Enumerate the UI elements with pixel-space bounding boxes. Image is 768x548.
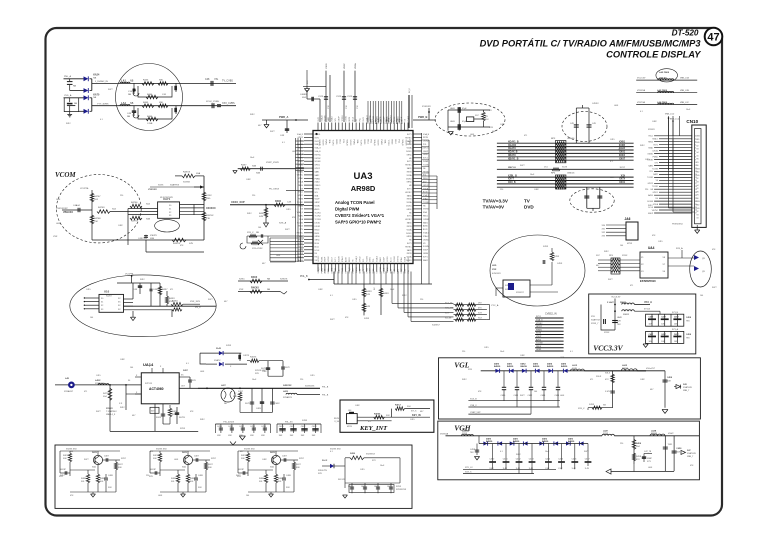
svg-text:X4XX: X4XX	[226, 345, 232, 347]
svg-text:VGA_B: VGA_B	[315, 150, 322, 153]
svg-text:D4X4: D4X4	[547, 363, 553, 366]
svg-text:SAR2: SAR2	[379, 257, 382, 262]
svg-text:XXXX: XXXX	[180, 428, 186, 430]
svg-text:POL: POL	[359, 118, 361, 122]
svg-text:RED1: RED1	[423, 216, 428, 218]
svg-text:GRN1: GRN1	[407, 209, 412, 211]
svg-text:C4X6: C4X6	[572, 459, 577, 461]
svg-text:C4X0: C4X0	[279, 426, 284, 428]
svg-text:PWM1: PWM1	[408, 140, 410, 145]
svg-text:LA5X: LA5X	[450, 107, 456, 110]
svg-text:XJBL_B: XJBL_B	[508, 175, 517, 177]
svg-text:GPIO2: GPIO2	[648, 183, 654, 185]
svg-text:XXXP_XXXX: XXXP_XXXX	[266, 162, 279, 164]
svg-text:RSTB: RSTB	[407, 253, 413, 255]
svg-text:GNDP: GNDP	[315, 202, 321, 204]
svg-text:XXX7: XXX7	[211, 458, 216, 460]
svg-text:GPIO1: GPIO1	[653, 192, 659, 194]
svg-text:XXX7: XXX7	[299, 458, 304, 460]
svg-text:X0: X0	[101, 298, 103, 300]
svg-text:XXAT7XX: XXAT7XX	[591, 319, 601, 322]
svg-text:104: 104	[492, 131, 495, 133]
svg-text:LED: LED	[492, 265, 497, 267]
svg-text:X1: X1	[101, 302, 103, 304]
svg-text:C4X1: C4X1	[361, 486, 366, 488]
svg-text:R412: R412	[516, 454, 521, 456]
svg-text:LVDS1: LVDS1	[423, 239, 429, 241]
svg-text:0.1: 0.1	[100, 119, 103, 121]
svg-text:DVD PORTÁTIL C/ TV/RADIO AM/F: DVD PORTÁTIL C/ TV/RADIO AM/FM/USB/MC/MP…	[480, 39, 702, 49]
svg-text:C482: C482	[652, 121, 657, 123]
svg-text:0.1: 0.1	[610, 161, 613, 163]
svg-text:X4XX: X4XX	[92, 451, 98, 454]
svg-text:BLU0: BLU0	[352, 117, 354, 122]
svg-text:X08: X08	[63, 458, 66, 460]
svg-text:FB08X: FB08X	[651, 433, 658, 435]
svg-text:LA2X: LA2X	[622, 364, 628, 367]
svg-text:DXLX: DXLX	[596, 376, 602, 378]
svg-text:D4X0: D4X0	[494, 363, 500, 366]
svg-text:C4X1: C4X1	[290, 426, 295, 428]
svg-text:AVDD: AVDD	[648, 194, 654, 197]
svg-text:R477: R477	[96, 411, 101, 413]
svg-text:JX4: JX4	[348, 410, 351, 412]
svg-text:C4X0: C4X0	[217, 426, 222, 428]
svg-text:SOGIN: SOGIN	[339, 256, 341, 262]
svg-text:BAV99: BAV99	[494, 365, 501, 368]
svg-text:VXXXXX: VXXXXX	[148, 189, 157, 191]
svg-text:POL: POL	[423, 144, 427, 146]
svg-text:HSYNC: HSYNC	[318, 255, 320, 262]
svg-text:XXLX: XXLX	[605, 373, 611, 375]
svg-text:XxXO: XxXO	[106, 296, 112, 298]
svg-text:X3.8V: X3.8V	[334, 418, 340, 420]
svg-text:L403: L403	[614, 105, 618, 107]
svg-text:VCCPNL: VCCPNL	[125, 274, 135, 276]
svg-text:X.4X: X.4X	[585, 468, 590, 470]
svg-text:PXL_B: PXL_B	[322, 387, 329, 389]
svg-text:PWM1: PWM1	[315, 178, 320, 180]
svg-text:C4X1: C4X1	[514, 395, 519, 397]
svg-text:CVBS: CVBS	[695, 136, 699, 138]
svg-text:L403: L403	[560, 395, 564, 397]
svg-text:D4X1: D4X1	[513, 438, 519, 441]
svg-text:BLU0: BLU0	[315, 243, 320, 245]
svg-text:X1: X1	[169, 208, 171, 210]
svg-text:X8G: X8G	[206, 198, 211, 200]
svg-text:HSYNC: HSYNC	[405, 219, 412, 221]
svg-text:PWM1: PWM1	[536, 329, 542, 331]
svg-text:471: 471	[590, 379, 593, 381]
svg-text:VGA_R: VGA_R	[373, 140, 376, 147]
svg-text:SVC1: SVC1	[648, 136, 653, 138]
svg-text:X0B: X0B	[252, 166, 257, 168]
svg-text:BLU0: BLU0	[423, 192, 428, 194]
svg-text:C4X8: C4X8	[470, 449, 476, 451]
svg-text:XX_X: XX_X	[409, 88, 411, 93]
svg-text:VDDP: VDDP	[344, 63, 346, 69]
svg-text:C-NB: C-NB	[147, 123, 153, 125]
svg-text:KEY_INT: KEY_INT	[359, 425, 388, 432]
svg-text:C4X7: C4X7	[661, 333, 666, 336]
svg-text:RSTB: RSTB	[407, 199, 413, 201]
svg-text:XXATX4X: XXATX4X	[687, 452, 697, 455]
svg-text:4K7: 4K7	[420, 411, 423, 413]
svg-text:C4X4: C4X4	[545, 459, 550, 461]
svg-text:RSTB: RSTB	[315, 189, 321, 191]
svg-text:GPIO1: GPIO1	[423, 147, 429, 149]
svg-text:TCON3: TCON3	[423, 202, 429, 204]
svg-text:VXX: VXX	[53, 236, 58, 238]
svg-text:UA3: UA3	[353, 171, 372, 182]
svg-text:XTALO: XTALO	[315, 184, 321, 187]
svg-text:D4X2: D4X2	[521, 363, 527, 366]
svg-text:C4X8: C4X8	[686, 333, 692, 336]
svg-text:NB: NB	[93, 97, 97, 99]
svg-text:VDDP: VDDP	[536, 336, 542, 338]
svg-text:3Y3_A: 3Y3_A	[644, 300, 652, 304]
svg-text:SYSXXX: SYSXXX	[422, 106, 431, 108]
svg-text:XCK_B: XCK_B	[470, 399, 477, 401]
svg-text:BLU1: BLU1	[391, 258, 393, 263]
svg-text:SVC1: SVC1	[423, 158, 428, 160]
svg-text:SAR1: SAR1	[407, 167, 412, 170]
svg-text:X4X: X4X	[259, 216, 264, 218]
svg-text:C4X7: C4X7	[649, 316, 654, 319]
svg-text:L4XX: L4XX	[95, 379, 101, 382]
svg-text:R412: R412	[60, 475, 65, 477]
svg-text:CVBS1: CVBS1	[315, 134, 321, 136]
svg-text:XTALI: XTALI	[298, 177, 303, 180]
svg-text:RED1: RED1	[404, 269, 406, 274]
svg-text:VSYNC: VSYNC	[536, 323, 543, 325]
svg-text:RED1: RED1	[349, 117, 351, 122]
svg-text:RED0: RED0	[335, 140, 337, 145]
svg-text:DCLK: DCLK	[315, 250, 321, 252]
svg-text:GNDP: GNDP	[401, 268, 403, 274]
svg-text:VCC3.3V: VCC3.3V	[593, 344, 623, 353]
svg-text:C4X3: C4X3	[250, 426, 255, 428]
svg-text:X1X: X1X	[478, 318, 482, 320]
svg-text:R4768: R4768	[94, 218, 101, 220]
svg-text:RED1: RED1	[349, 257, 351, 262]
svg-text:XTALO: XTALO	[423, 235, 429, 238]
svg-text:PWM1: PWM1	[321, 268, 323, 273]
svg-text:C4X7X: C4X7X	[243, 355, 250, 357]
svg-text:J_SVBS2_IN: J_SVBS2_IN	[95, 81, 108, 83]
svg-text:X08: X08	[241, 458, 244, 460]
svg-text:0.1: 0.1	[640, 111, 643, 113]
svg-text:XTALO: XTALO	[652, 138, 658, 141]
svg-text:XXXX: XXXX	[619, 155, 626, 157]
svg-text:LA5X: LA5X	[450, 120, 456, 123]
svg-text:220: 220	[462, 351, 465, 353]
svg-text:TV/AV=3.3V: TV/AV=3.3V	[483, 199, 509, 204]
svg-text:CX2X: CX2X	[318, 96, 324, 98]
svg-text:X4: X4	[128, 380, 130, 382]
svg-text:X47X: X47X	[245, 403, 250, 405]
svg-text:PWM1: PWM1	[325, 140, 327, 145]
svg-text:VGA_G: VGA_G	[536, 319, 543, 322]
svg-text:VDDA: VDDA	[407, 228, 413, 231]
svg-text:NB: NB	[130, 102, 134, 105]
svg-text:R4XX: R4XX	[383, 293, 389, 295]
svg-text:CVBS1: CVBS1	[423, 219, 429, 221]
svg-text:R4X8: R4X8	[81, 478, 86, 480]
svg-text:R4XX: R4XX	[366, 291, 372, 293]
svg-text:R412: R412	[66, 123, 71, 125]
svg-text:RSTB: RSTB	[407, 172, 413, 174]
svg-text:75K: 75K	[94, 221, 98, 223]
svg-text:CXB_X: CXB_X	[470, 405, 477, 407]
svg-text:SVC1: SVC1	[394, 269, 396, 274]
svg-text:VDDA: VDDA	[407, 201, 413, 204]
svg-text:SVY1: SVY1	[407, 243, 412, 245]
svg-text:RED0: RED0	[423, 178, 428, 180]
svg-text:XX_X8: XX_X8	[445, 318, 452, 320]
svg-text:VGA_B: VGA_B	[376, 255, 379, 262]
svg-text:VGA_R: VGA_R	[355, 255, 358, 262]
svg-text:C482: C482	[262, 371, 267, 373]
svg-text:220: 220	[500, 189, 503, 191]
svg-text:471: 471	[630, 285, 633, 287]
svg-text:PU_XXXX: PU_XXXX	[269, 189, 280, 191]
svg-text:220: 220	[120, 195, 123, 197]
svg-text:R412: R412	[120, 407, 125, 409]
svg-text:XXB1: XXB1	[619, 141, 626, 143]
svg-text:R4769: R4769	[98, 207, 105, 209]
svg-text:BAV99: BAV99	[547, 365, 554, 368]
svg-text:LVDS2: LVDS2	[652, 150, 658, 152]
svg-text:R477: R477	[270, 131, 275, 133]
svg-text:4K7: 4K7	[224, 301, 227, 303]
svg-text:TV: TV	[524, 199, 531, 204]
svg-text:104: 104	[130, 367, 133, 369]
svg-text:C4089: C4089	[300, 94, 307, 96]
svg-text:TV/AV=0V: TV/AV=0V	[483, 205, 505, 210]
svg-text:VXXXXA: VXXXXA	[637, 89, 646, 92]
svg-text:VSYNC: VSYNC	[652, 210, 659, 212]
svg-text:XXXXXX: XXXXXX	[206, 207, 216, 210]
svg-text:C4X1: C4X1	[503, 459, 508, 461]
svg-text:TCON2: TCON2	[387, 267, 389, 273]
svg-text:BAV99: BAV99	[568, 440, 575, 443]
svg-text:SAR2: SAR2	[423, 259, 428, 262]
svg-text:R477: R477	[520, 165, 525, 167]
svg-text:R4X8: R4X8	[171, 478, 176, 480]
svg-text:220: 220	[620, 443, 623, 445]
svg-text:X01: X01	[81, 481, 84, 483]
svg-text:GPIO2: GPIO2	[315, 168, 321, 170]
svg-text:VGA_B: VGA_B	[423, 133, 430, 136]
svg-text:C4X2: C4X2	[528, 395, 533, 397]
svg-text:4.8V/XXX: 4.8V/XXX	[492, 273, 501, 275]
svg-text:R477: R477	[285, 229, 290, 231]
svg-text:X01: X01	[259, 481, 262, 483]
svg-text:104: 104	[90, 317, 93, 319]
svg-text:XX17: XX17	[620, 167, 626, 169]
svg-text:SAR1: SAR1	[407, 194, 412, 197]
svg-text:0.1: 0.1	[330, 295, 333, 297]
svg-text:TCON3: TCON3	[536, 343, 542, 345]
svg-text:XBB4.4_X: XBB4.4_X	[106, 414, 116, 416]
svg-text:PWM1: PWM1	[380, 140, 382, 145]
svg-text:471: 471	[170, 289, 173, 291]
svg-text:X0B: X0B	[150, 238, 155, 240]
svg-text:XTALO: XTALO	[383, 267, 386, 273]
svg-text:XXXAXX7: XXXAXX7	[64, 390, 74, 393]
svg-text:XRAYX: XRAYX	[508, 154, 516, 157]
svg-text:PWM1: PWM1	[653, 156, 658, 158]
svg-text:AVDD: AVDD	[315, 208, 321, 211]
svg-text:VGA_G: VGA_G	[317, 267, 320, 274]
svg-text:C415: C415	[658, 241, 663, 243]
svg-text:C4X4: C4X4	[261, 426, 266, 428]
svg-text:NB: NB	[128, 94, 132, 96]
svg-text:SOGIN: SOGIN	[377, 140, 379, 146]
svg-text:C4X7: C4X7	[194, 456, 199, 458]
svg-text:VGA_R: VGA_R	[401, 140, 404, 147]
svg-text:C4X7: C4X7	[674, 316, 679, 319]
svg-text:R4767: R4767	[94, 196, 101, 198]
svg-text:X.4X: X.4X	[572, 468, 577, 470]
svg-text:C4X7X: C4X7X	[138, 238, 145, 240]
svg-text:SVY1: SVY1	[407, 134, 412, 136]
svg-text:0.1: 0.1	[330, 451, 333, 453]
svg-text:FB08X: FB08X	[623, 314, 630, 316]
svg-text:C415: C415	[610, 139, 615, 141]
svg-text:LA4 FB09: LA4 FB09	[657, 101, 668, 104]
svg-text:VDDA: VDDA	[653, 203, 659, 206]
svg-text:GRN1: GRN1	[536, 349, 541, 351]
svg-text:XXLB.7XV: XXLB.7XV	[318, 470, 328, 472]
svg-text:DVD: DVD	[524, 205, 534, 210]
svg-text:R444: R444	[147, 94, 153, 96]
svg-text:XXXXX: XXXXX	[106, 408, 113, 410]
svg-text:XXX+XXXX: XXX+XXXX	[252, 248, 263, 250]
svg-text:XXA7X: XXA7X	[214, 359, 221, 362]
svg-text:4PXX: 4PXX	[627, 243, 633, 245]
svg-text:RSTB: RSTB	[536, 333, 542, 335]
svg-text:HS: HS	[696, 191, 698, 193]
svg-text:VXXTXA: VXXTXA	[637, 101, 646, 104]
svg-text:SVY1: SVY1	[363, 117, 365, 122]
svg-text:TCON2: TCON2	[647, 177, 653, 179]
svg-text:VBB_LXB: VBB_LXB	[680, 90, 690, 92]
svg-text:GNDP: GNDP	[423, 151, 429, 153]
svg-text:CVBS2_IN: CVBS2_IN	[545, 313, 557, 316]
svg-text:PXXXXXX4: PXXXXXX4	[672, 224, 683, 226]
svg-text:VCC3.3V: VCC3.3V	[611, 297, 621, 299]
svg-text:VGA_R: VGA_R	[318, 140, 321, 147]
svg-text:X4X7: X4X7	[208, 464, 213, 466]
svg-text:RSTB: RSTB	[298, 199, 304, 201]
svg-text:SVY1: SVY1	[407, 189, 412, 191]
svg-text:C482: C482	[246, 179, 251, 181]
svg-text:BNN_LCD: BNN_LCD	[670, 119, 680, 121]
svg-text:VSYNC: VSYNC	[315, 158, 322, 160]
svg-text:L403: L403	[560, 357, 564, 359]
svg-text:4K7: 4K7	[258, 125, 261, 127]
svg-text:X1K: X1K	[206, 218, 211, 220]
svg-text:C4X2: C4X2	[374, 486, 379, 488]
svg-text:X08: X08	[118, 467, 121, 469]
svg-text:471: 471	[524, 135, 527, 137]
svg-text:X08: X08	[296, 467, 299, 469]
svg-text:R477: R477	[330, 319, 335, 321]
svg-text:BLU0: BLU0	[402, 120, 404, 125]
svg-text:R4X,X: R4X,X	[395, 404, 401, 407]
svg-text:Digital PWM: Digital PWM	[335, 207, 360, 212]
svg-text:RED0: RED0	[315, 229, 320, 231]
svg-text:R3: R3	[696, 182, 698, 184]
svg-text:XXX1: XXX1	[619, 152, 626, 154]
svg-text:SOGIN: SOGIN	[647, 201, 653, 203]
svg-text:XXXXXXX: XXXXXXX	[366, 454, 376, 456]
svg-text:GND16: GND16	[567, 173, 575, 175]
svg-text:3Y3_B: 3Y3_B	[672, 312, 679, 314]
svg-text:LXXX: LXXX	[206, 195, 212, 197]
svg-text:U10: U10	[104, 290, 110, 294]
svg-text:SCL: SCL	[315, 192, 319, 194]
svg-text:C4X3: C4X3	[541, 395, 546, 397]
svg-text:X4X7: X4X7	[118, 464, 123, 466]
svg-text:R477: R477	[584, 451, 589, 453]
svg-text:C4X7: C4X7	[104, 456, 109, 458]
svg-text:HSYNC: HSYNC	[315, 154, 322, 156]
svg-text:C482: C482	[500, 124, 505, 126]
svg-text:FB08X: FB08X	[622, 368, 629, 370]
svg-text:VSYNC: VSYNC	[397, 255, 399, 262]
svg-text:BLU1: BLU1	[315, 246, 320, 248]
svg-text:X47X: X47X	[285, 367, 290, 369]
svg-text:X08: X08	[208, 467, 211, 469]
svg-text:XXXXX: XXXXX	[648, 129, 655, 131]
svg-text:SVY1: SVY1	[407, 161, 412, 163]
svg-text:R477: R477	[236, 475, 241, 477]
svg-text:4K7: 4K7	[618, 149, 621, 151]
svg-text:C48: C48	[205, 78, 210, 81]
svg-text:BAV99: BAV99	[521, 365, 528, 368]
svg-text:CX2X: CX2X	[347, 96, 353, 98]
svg-text:CXBP_XNT: CXBP_XNT	[470, 412, 481, 414]
svg-text:VS: VS	[696, 162, 698, 164]
svg-text:Y8L: Y8L	[214, 78, 219, 81]
svg-text:R3: R3	[696, 149, 698, 151]
svg-text:XL4X: XL4X	[216, 347, 222, 350]
svg-text:C4X2: C4X2	[516, 459, 521, 461]
svg-text:R4X6: R4X6	[275, 200, 282, 203]
svg-text:XGAXX: XGAXX	[508, 144, 517, 147]
svg-text:VDDA: VDDA	[407, 174, 413, 177]
svg-text:C4X8: C4X8	[108, 475, 113, 477]
svg-text:PNL_A: PNL_A	[64, 75, 71, 78]
svg-text:C4X: C4X	[592, 123, 597, 125]
svg-text:RED1: RED1	[315, 233, 320, 235]
svg-text:R412: R412	[402, 295, 407, 297]
svg-text:AVDD: AVDD	[345, 256, 348, 262]
svg-text:XXX_X: XXX_X	[465, 471, 472, 473]
svg-text:PWM1: PWM1	[321, 257, 323, 262]
svg-text:GRN1: GRN1	[370, 257, 372, 262]
svg-text:SOGIN: SOGIN	[349, 140, 351, 146]
svg-text:VDDA: VDDA	[315, 205, 321, 208]
svg-text:R4XX: R4XX	[259, 213, 265, 215]
svg-text:X1XX: X1XX	[562, 167, 568, 169]
svg-text:XXX_XXX: XXX_XXX	[190, 301, 201, 303]
svg-text:X0A: X0A	[196, 172, 201, 175]
svg-text:XX7X: XX7X	[619, 179, 625, 181]
